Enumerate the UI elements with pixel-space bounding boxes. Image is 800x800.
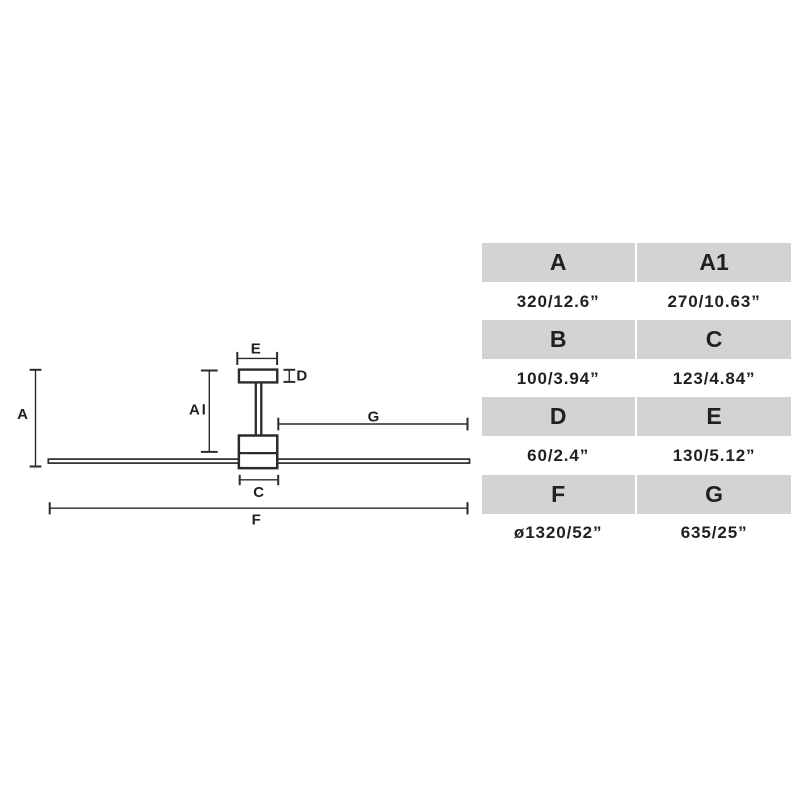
table value ø1320/52"	[482, 518, 635, 548]
dimension F	[50, 502, 468, 514]
table value 320/12.6"	[482, 287, 635, 317]
dimension D	[284, 370, 296, 382]
svg-text:A: A	[189, 401, 200, 418]
table header cell A	[482, 243, 635, 282]
table value 60/2.4"	[482, 441, 635, 471]
svg-text:F: F	[252, 512, 261, 529]
table header cell D	[482, 397, 635, 436]
dimension A	[30, 370, 42, 467]
motor housing divider	[238, 452, 279, 454]
table header cell E	[637, 397, 791, 436]
dimension G	[278, 418, 467, 431]
svg-text:C: C	[253, 484, 264, 501]
table header cell B	[482, 320, 635, 359]
svg-text:A: A	[17, 406, 28, 423]
dimension E	[237, 352, 277, 365]
canopy	[239, 370, 277, 383]
motor housing	[239, 436, 277, 469]
table value 635/25"	[637, 518, 791, 548]
blade	[48, 459, 469, 463]
table header cell A1	[637, 243, 791, 282]
downrod	[256, 383, 261, 437]
table value 270/10.63"	[637, 287, 791, 317]
svg-text:G: G	[368, 408, 380, 425]
table header cell F	[482, 475, 635, 514]
label A1	[189, 401, 205, 418]
table header cell G	[637, 475, 791, 514]
table value 100/3.94"	[482, 364, 635, 394]
table value 130/5.12"	[637, 441, 791, 471]
svg-text:D: D	[296, 368, 307, 385]
dimension C	[240, 475, 279, 485]
svg-text:E: E	[251, 341, 261, 358]
dimension A1	[201, 371, 218, 452]
table header cell C	[637, 320, 791, 359]
table value 123/4.84"	[637, 364, 791, 394]
